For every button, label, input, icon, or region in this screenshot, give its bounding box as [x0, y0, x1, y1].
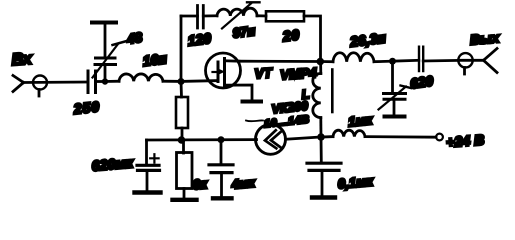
inductor 16н [119, 50, 168, 81]
ground bar under trimmer 620 [385, 115, 405, 119]
resistor 6к [177, 153, 209, 193]
output connector fork [484, 49, 498, 73]
input connector fork [13, 76, 24, 92]
svg-text:620: 620 [409, 73, 434, 91]
wire resistor 20 to right side of top loop [304, 16, 321, 62]
capacitor 4мк [209, 165, 256, 192]
wire node D to output cap [393, 59, 419, 63]
wire 26,3н to node D [374, 60, 393, 63]
svg-text:620мк: 620мк [91, 155, 134, 175]
wire C250 to node A [96, 80, 106, 83]
wire node F down to 4мк [220, 140, 223, 165]
node C junction dot [317, 58, 325, 66]
wire node B up left side of top loop [180, 16, 183, 81]
ground bar at transistor source [243, 100, 262, 104]
svg-text:250: 250 [72, 98, 101, 117]
trimmer capacitor 48 [93, 30, 144, 78]
node A junction dot [102, 78, 108, 84]
node D junction dot [389, 58, 396, 65]
wire 6к to ground [183, 189, 186, 199]
svg-text:Вых: Вых [469, 30, 501, 48]
svg-text:1мк: 1мк [347, 112, 374, 130]
svg-text:97н: 97н [232, 23, 256, 41]
inductor 26,3н [333, 29, 387, 61]
wire node A up to trimmer 48 [104, 65, 107, 82]
node E junction dot [178, 136, 186, 144]
svg-text:10...14В: 10...14В [264, 113, 311, 130]
wire 620мк to ground [146, 170, 149, 191]
inductor 1мк [333, 112, 374, 137]
electrolytic capacitor 620мк [91, 154, 159, 175]
terminal +24В [436, 133, 485, 152]
wire 16н to node B [163, 80, 181, 83]
wire node G to 1мк [321, 135, 333, 138]
svg-text:VT: VT [254, 65, 274, 81]
trimmer capacitor 620 [379, 73, 435, 109]
node B junction dot [178, 78, 185, 85]
wire 4мк to ground [220, 173, 223, 197]
input connector circle [33, 76, 47, 97]
svg-text:4мк: 4мк [230, 175, 256, 192]
capacitor 250 [72, 71, 101, 117]
ground bar under 620мк [135, 190, 161, 194]
ground bar under 4мк [213, 196, 232, 200]
wire bias rail down to 620мк [145, 140, 148, 164]
svg-text:+24 В: +24 В [446, 133, 485, 152]
wire node G down to 0,1мк [320, 137, 323, 162]
transistor VT VМР4 [206, 53, 318, 100]
resistor 20 [266, 11, 304, 44]
svg-text:20: 20 [281, 26, 301, 44]
svg-text:6к: 6к [192, 176, 209, 192]
capacitor 0,1мк [307, 163, 375, 191]
svg-text:26,3н: 26,3н [348, 29, 387, 49]
wire drain to node C [239, 60, 321, 63]
node F junction dot [218, 136, 225, 143]
variable inductor 97н [217, 2, 260, 40]
bias rail wire [147, 138, 257, 141]
wire input to C250 [24, 81, 88, 84]
capacitor 120 [187, 6, 212, 49]
inductor L VK200 (ferrite choke) [246, 62, 332, 138]
svg-text:0,1мк: 0,1мк [337, 173, 375, 191]
wire 1мк to +24В terminal [365, 135, 436, 138]
wire through connector to fork [459, 59, 484, 62]
wire 0,1мк to ground [321, 170, 324, 196]
wire meter symbol to node G [285, 137, 321, 139]
output connector circle [458, 53, 472, 74]
svg-text:16н: 16н [142, 50, 168, 69]
svg-text:Вх: Вх [11, 50, 33, 69]
ferrite bead symbol (circle with double chevron) [256, 124, 286, 154]
node G junction dot [317, 133, 325, 141]
wire node B down to bias resistor [180, 82, 183, 98]
chassis bar above trimmer 48 [92, 21, 116, 25]
ground bar under 0,1мк [312, 195, 335, 199]
output coupling capacitor [419, 47, 423, 71]
ground bar under 6к [173, 198, 197, 202]
wire top rail to C120 [181, 15, 198, 18]
svg-text:120: 120 [187, 30, 212, 49]
svg-text:48: 48 [125, 30, 143, 47]
wire node B to transistor gate [181, 79, 218, 83]
wire output cap to output connector [423, 59, 458, 62]
wire trimmer 48 up to top bar [104, 24, 107, 58]
wire 97н to resistor 20 [257, 14, 266, 17]
wire trimmer 620 to ground [393, 99, 396, 115]
wire node D down to trimmer 620 [391, 61, 394, 93]
wire node A to inductor 16н [105, 80, 119, 83]
wire C120 to 97н [203, 14, 217, 17]
gate bias resistor [176, 97, 188, 128]
wire bias resistor to bias rail [181, 128, 184, 140]
wire bias rail to meter symbol [255, 138, 256, 141]
wire node E down to 6к [182, 140, 185, 153]
wire node C to 26,3н [321, 60, 334, 63]
